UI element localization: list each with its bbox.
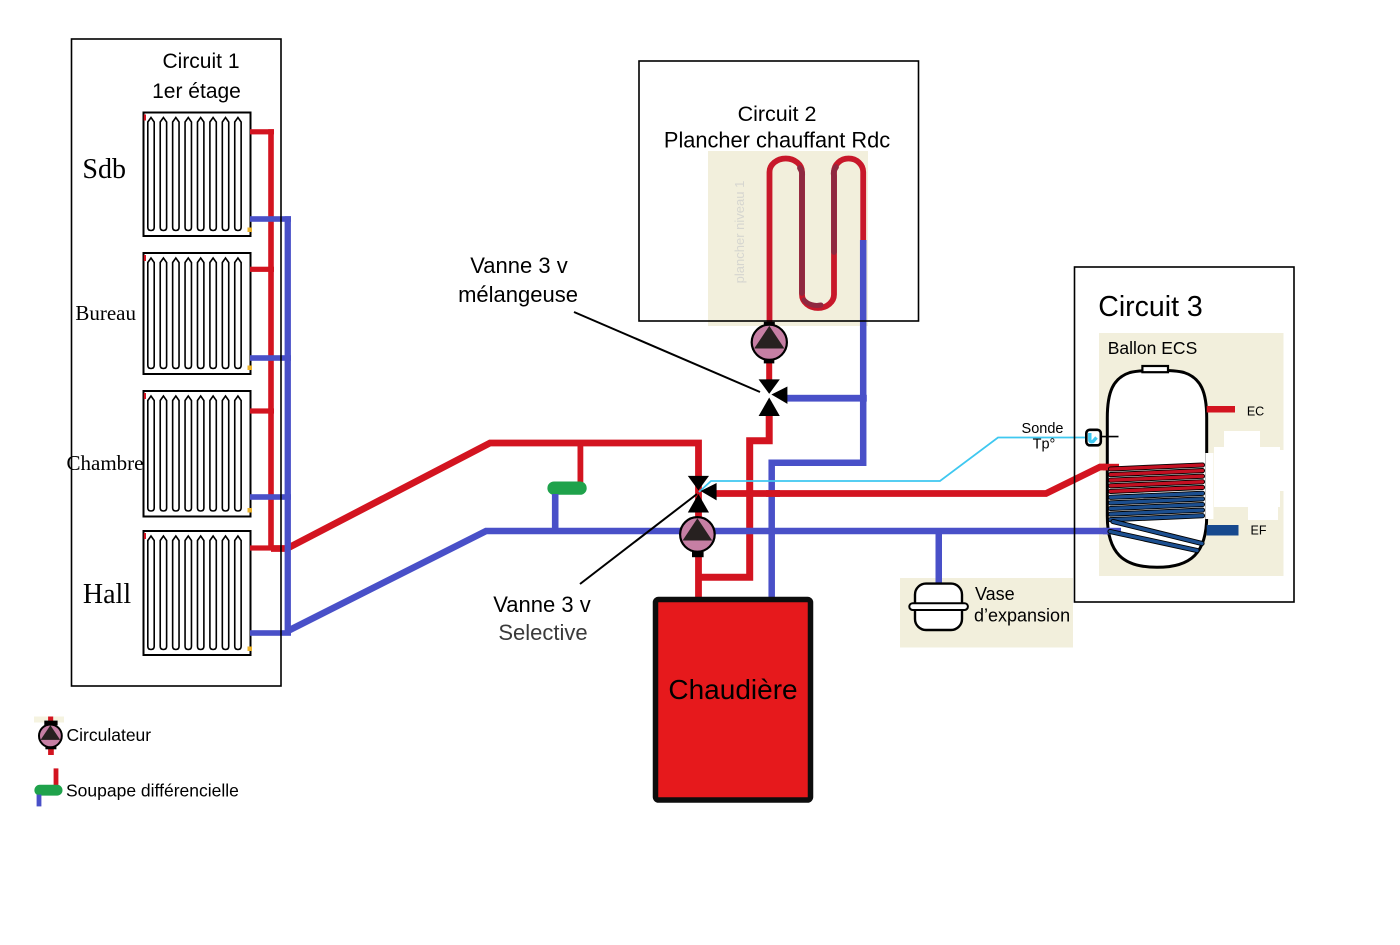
radiator Sdb body [144, 113, 251, 237]
radiator Sdb coil loops [148, 118, 241, 231]
tank top notch [1142, 366, 1168, 372]
radiator Hall coil loops [148, 536, 241, 650]
cream tick legend [34, 717, 64, 723]
svg-text:Tp°: Tp° [1033, 437, 1056, 453]
svg-text:Sdb: Sdb [82, 154, 126, 185]
box circuit 3 [1075, 267, 1295, 602]
wire red supply main: hall to selective valve and down to boiler [271, 443, 699, 599]
box circuit 1 [72, 39, 282, 686]
ballon ECS tank body [1107, 370, 1206, 567]
legend circulator red stubs [48, 717, 53, 724]
radiator Chambre red corner tick [144, 393, 146, 399]
svg-text:1er étage: 1er étage [152, 80, 241, 103]
wire blue stub Sdb return [250, 216, 291, 222]
sonde probe square [1086, 430, 1101, 446]
svg-text:Circuit 3: Circuit 3 [1098, 291, 1203, 323]
soupape differentielle green pill [547, 482, 586, 495]
EC stub [1207, 406, 1235, 413]
red on top of blue crossing: ECS over boiler return [766, 490, 780, 497]
cream panel vase [900, 578, 1073, 648]
wire red branch to soupape [578, 443, 584, 483]
wire red stub Bureau supply [250, 267, 274, 272]
wire blue riser circuit 1 [285, 216, 291, 633]
sonde cyan mark [1090, 433, 1097, 442]
svg-text:Hall: Hall [83, 579, 131, 610]
svg-text:Soupape différencielle: Soupape différencielle [66, 781, 239, 801]
radiator Hall orange drain dot [248, 647, 253, 652]
tank heating coil blue bars [1111, 493, 1203, 497]
radiator Hall body [144, 531, 251, 655]
svg-text:Chaudière: Chaudière [668, 674, 797, 705]
svg-text:Circuit 2: Circuit 2 [738, 102, 817, 126]
cream panel circuit 2 [708, 151, 868, 326]
svg-text:Vanne 3 v: Vanne 3 v [470, 253, 567, 278]
pointer line melangeuse label to valve [574, 312, 760, 392]
3-way valve selective V2 [688, 476, 717, 513]
circulator pump boiler feed [680, 517, 715, 557]
svg-text:d’expansion: d’expansion [974, 606, 1070, 626]
cream panel circuit 3 [1099, 333, 1284, 576]
radiator Chambre orange drain dot [248, 508, 253, 513]
wire red melangeuse drop to boiler riser [699, 408, 770, 577]
pointer line selective label to valve [580, 494, 697, 584]
red pipe entering tank interior [1103, 464, 1119, 471]
svg-text:Plancher chauffant Rdc: Plancher chauffant Rdc [664, 128, 890, 153]
svg-text:EC: EC [1247, 405, 1264, 419]
sonde tick into tank [1101, 436, 1119, 438]
floor-heating serpentine circuit 2 (red part) [770, 158, 864, 325]
wire blue stub Bureau return [250, 355, 291, 361]
vase expansion vessel [915, 584, 962, 630]
circulator pump circuit 2 [752, 322, 787, 364]
EF stub [1207, 525, 1239, 536]
svg-text:mélangeuse: mélangeuse [458, 282, 578, 307]
svg-text:Chambre: Chambre [67, 451, 144, 475]
wire red stub Sdb supply [250, 129, 274, 134]
boiler Chaudiere [656, 600, 811, 801]
wire blue return main to ballon [288, 531, 1113, 631]
wire blue melangeuse valve link [785, 395, 867, 402]
radiator Bureau red corner tick [144, 255, 146, 261]
wire blue vase drop [936, 531, 943, 585]
wire red riser circuit 1 [268, 129, 274, 549]
wire blue stub Hall return [250, 630, 291, 636]
svg-text:Ballon ECS: Ballon ECS [1108, 338, 1198, 358]
legend soupape red leg [54, 768, 59, 786]
svg-text:Selective: Selective [498, 620, 587, 645]
svg-text:Vanne 3 v: Vanne 3 v [493, 592, 590, 617]
blue pipe entering tank interior [1103, 528, 1121, 535]
svg-text:Circuit 1: Circuit 1 [162, 50, 239, 73]
tank coil bottom diagonals [1113, 522, 1202, 544]
legend soupape green pill [34, 785, 62, 796]
wire red ECS supply to ballon coil [713, 467, 1114, 494]
wire cyan sonde capillary [699, 438, 1086, 493]
radiator Chambre coil loops [148, 396, 241, 511]
soupape blue leg [552, 494, 559, 530]
radiator Chambre body [144, 391, 251, 517]
radiator Hall red corner tick [144, 533, 146, 539]
svg-text:Circulateur: Circulateur [67, 725, 152, 745]
box circuit 2 [639, 61, 919, 321]
svg-text:plancher niveau 1: plancher niveau 1 [732, 181, 747, 284]
wire blue circuit2 return to boiler [772, 240, 864, 599]
wire blue stub Chambre return [250, 494, 291, 500]
svg-text:Bureau: Bureau [75, 301, 136, 325]
wire red circuit2 pump-valve link [766, 356, 772, 386]
tank heating coil red bars [1111, 465, 1203, 469]
radiator Bureau orange drain dot [248, 366, 253, 371]
wire red stub Chambre supply [250, 408, 274, 413]
svg-text:EF: EF [1251, 524, 1267, 538]
circulator pump legend [39, 721, 62, 750]
legend soupape blue leg [37, 795, 42, 807]
svg-text:Vase: Vase [975, 584, 1015, 604]
svg-text:Sonde: Sonde [1022, 421, 1064, 437]
tank border eraser patch [1205, 453, 1213, 519]
radiator Sdb orange drain dot [248, 228, 253, 233]
radiator Bureau body [144, 253, 251, 374]
white texture blobs [1214, 431, 1288, 520]
radiator Bureau coil loops [148, 258, 241, 369]
3-way valve melangeuse V1 [759, 379, 788, 416]
vase band [909, 603, 968, 610]
radiator Sdb red corner tick [144, 115, 146, 121]
serpentine maroon shading segments [800, 168, 802, 293]
wire red stub Hall supply [250, 545, 274, 550]
